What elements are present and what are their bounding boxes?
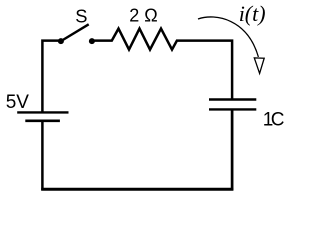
svg-text:2 Ω: 2 Ω <box>129 5 157 25</box>
svg-text:i(t): i(t) <box>239 1 266 26</box>
svg-text:1C: 1C <box>263 110 285 131</box>
svg-text:S: S <box>75 6 87 27</box>
svg-text:5V: 5V <box>6 92 30 113</box>
